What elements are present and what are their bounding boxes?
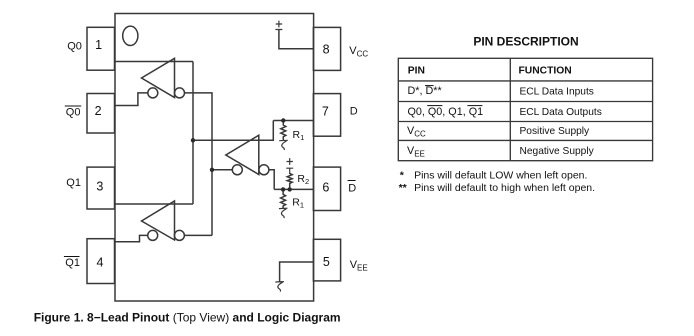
pin 7 box [313, 94, 340, 137]
U2 bubble (left) [232, 165, 242, 175]
package outline (8-lead, top view) [115, 14, 314, 302]
node B (rail to U2 bubble) [210, 168, 214, 172]
VEE squiggle under lower R1 [279, 208, 288, 218]
wire pin1 Q0 [115, 61, 193, 63]
svg-text:Q0: Q0 [67, 40, 82, 52]
resistor R2 [287, 173, 292, 190]
svg-text:VEE: VEE [407, 145, 425, 159]
svg-text:*: * [400, 169, 405, 181]
svg-text:PIN: PIN [408, 65, 425, 76]
wire U1b bubble to rail [184, 234, 212, 236]
svg-text:VEE: VEE [350, 259, 368, 273]
wire pin5 VEE [280, 262, 314, 282]
svg-text:6: 6 [322, 181, 329, 195]
U1b bubble (to pin 4) [148, 230, 158, 240]
svg-text:VCC: VCC [349, 45, 368, 59]
svg-text:4: 4 [97, 256, 104, 270]
pin 1 box [87, 27, 115, 70]
plus terminal above R2 [286, 158, 293, 172]
buffer gate U1a (top, triangle) [142, 58, 175, 97]
svg-text:Pins will default to high when: Pins will default to high when left open… [414, 182, 595, 194]
node C (R1 upper tap on D wire) [281, 118, 285, 122]
wire pin6 Dbar [274, 188, 313, 190]
svg-text:Positive Supply: Positive Supply [520, 126, 591, 137]
svg-text:5: 5 [323, 255, 330, 269]
pin 3 box [87, 167, 115, 209]
svg-text:VCC: VCC [407, 125, 426, 139]
wire U2 right bubble to pin6 [269, 170, 274, 190]
svg-text:3: 3 [96, 179, 103, 193]
wire rail node to U2 bubble [212, 169, 232, 171]
svg-text:8: 8 [323, 43, 330, 57]
U1a bubble (right) [175, 88, 185, 98]
svg-text:Figure 1. 8−Lead Pinout (Top V: Figure 1. 8−Lead Pinout (Top View) and L… [34, 311, 341, 325]
U1b bubble (right) [174, 230, 184, 240]
svg-text:D: D [350, 106, 358, 118]
wire U1a bubble to rail [185, 93, 213, 236]
svg-text:ECL Data Outputs: ECL Data Outputs [520, 107, 602, 118]
wire D feed (node to receiver input) [193, 121, 273, 141]
node D (R1 lower tap on Dbar wire) [281, 187, 285, 191]
svg-text:Negative Supply: Negative Supply [520, 146, 595, 157]
svg-text:R1: R1 [292, 197, 304, 210]
U1a bubble (to pin 2) [148, 88, 158, 98]
wire pin3 Q1 [115, 203, 193, 205]
node A (rail to D feed) [191, 138, 195, 142]
wire pin7 D [273, 120, 313, 122]
pin 2 box [87, 94, 115, 134]
wire vertical rail (pin1 to pin3) [192, 62, 194, 205]
pin 4 box [87, 239, 115, 284]
svg-text:D*, D**: D*, D** [408, 85, 443, 97]
receiver gate U2 (middle, triangle) [226, 135, 259, 174]
svg-text:FUNCTION: FUNCTION [519, 65, 572, 76]
svg-text:2: 2 [95, 104, 102, 118]
svg-text:Pins will default LOW when lef: Pins will default LOW when left open. [414, 169, 587, 181]
wire pin2 Q0bar [115, 93, 148, 106]
pin 8 box [313, 27, 340, 70]
pin 5 box [313, 239, 340, 281]
wire VCC to pin8 [279, 30, 314, 49]
svg-text:D: D [348, 182, 356, 194]
svg-text:Q1: Q1 [66, 177, 81, 189]
svg-text:Q0, Q0, Q1, Q1: Q0, Q0, Q1, Q1 [408, 106, 484, 118]
svg-text:R2: R2 [297, 173, 309, 186]
svg-text:Q0: Q0 [66, 107, 81, 119]
wire pin4 Q1bar [115, 235, 148, 241]
svg-text:**: ** [399, 182, 408, 194]
pin-1 indicator ellipse [123, 26, 138, 45]
pin 6 box [313, 167, 340, 210]
node E (R2 tap on Dbar wire) [288, 187, 292, 191]
svg-text:PIN DESCRIPTION: PIN DESCRIPTION [473, 35, 578, 49]
svg-text:7: 7 [322, 104, 329, 118]
VCC plus terminal symbol (top right) [275, 21, 282, 30]
svg-text:Q1: Q1 [65, 257, 80, 269]
VEE squiggle at pin5 wire [275, 282, 284, 292]
VEE squiggle under upper R1 [279, 140, 288, 150]
resistor R1 (lower) [281, 189, 286, 208]
buffer gate U1b (bottom, triangle) [142, 201, 175, 240]
svg-text:ECL Data Inputs: ECL Data Inputs [520, 87, 594, 98]
svg-text:R1: R1 [293, 129, 305, 142]
U2 bubble (right) [259, 165, 269, 175]
pin description table grid [398, 58, 652, 160]
resistor R1 (upper) [281, 121, 286, 141]
svg-text:1: 1 [95, 38, 102, 52]
